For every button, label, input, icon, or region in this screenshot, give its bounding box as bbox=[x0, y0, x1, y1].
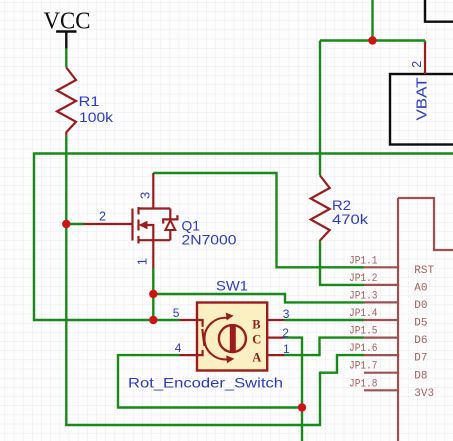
svg-text:C: C bbox=[252, 333, 261, 347]
connector JP1 (module box) bbox=[364, 198, 453, 441]
svg-text:D8: D8 bbox=[414, 370, 427, 382]
svg-text:3: 3 bbox=[283, 307, 290, 321]
svg-text:3V3: 3V3 bbox=[414, 388, 434, 400]
switch SW1 Rot_Encoder_Switch bbox=[128, 278, 285, 391]
svg-text:JP1.1: JP1.1 bbox=[349, 255, 378, 267]
wire SW1 pin3 to JP1.4 bbox=[285, 319, 365, 321]
svg-text:1: 1 bbox=[283, 342, 290, 356]
wire top VBAT net bbox=[320, 0, 425, 176]
svg-text:JP1.5: JP1.5 bbox=[349, 326, 378, 338]
svg-text:2: 2 bbox=[410, 61, 424, 68]
svg-text:JP1.2: JP1.2 bbox=[349, 273, 378, 285]
svg-text:470k: 470k bbox=[332, 211, 369, 227]
wire SW1 pin2 down across to bottom bbox=[285, 338, 303, 441]
wire source net rail (left big loop to SW1 pin 5) bbox=[34, 154, 453, 321]
svg-text:5: 5 bbox=[173, 306, 180, 320]
wire Q1 drain to JP1.1 bbox=[153, 173, 364, 267]
svg-text:SW1: SW1 bbox=[216, 278, 248, 294]
wire VCC to R1 bbox=[65, 49, 67, 68]
wire R2 bottom to JP1.2 bbox=[320, 241, 364, 285]
svg-text:2: 2 bbox=[99, 210, 106, 224]
junction dot at VBAT wire bbox=[368, 36, 376, 44]
resistor R2 bbox=[311, 176, 369, 242]
svg-text:100k: 100k bbox=[79, 109, 114, 125]
svg-text:D6: D6 bbox=[414, 335, 427, 347]
wire source junction to JP1.3 bbox=[153, 294, 364, 302]
svg-text:VBAT: VBAT bbox=[413, 78, 430, 121]
svg-text:JP1.3: JP1.3 bbox=[349, 290, 378, 302]
junction dot at SW1 pin5 bbox=[149, 316, 157, 324]
resistor R1 bbox=[57, 68, 114, 136]
svg-text:2: 2 bbox=[282, 326, 289, 340]
svg-text:B: B bbox=[252, 317, 260, 331]
supply symbol VCC bbox=[44, 8, 91, 48]
svg-text:JP1.8: JP1.8 bbox=[349, 378, 378, 390]
svg-text:Rot_Encoder_Switch: Rot_Encoder_Switch bbox=[128, 375, 283, 391]
svg-text:A0: A0 bbox=[414, 283, 427, 295]
wire SW1 pin1 to JP1.5 bbox=[285, 338, 365, 356]
svg-text:JP1.7: JP1.7 bbox=[349, 361, 378, 373]
transistor Q1 2N7000 bbox=[84, 173, 237, 268]
svg-text:A: A bbox=[252, 351, 261, 365]
junction dot below SW1 bbox=[298, 403, 306, 411]
battery VBAT box bbox=[390, 74, 453, 145]
svg-text:D7: D7 bbox=[414, 353, 427, 365]
svg-text:JP1.6: JP1.6 bbox=[349, 343, 378, 355]
svg-text:RST: RST bbox=[414, 265, 434, 277]
wire R1 bottom to gate junction to bottom rail bbox=[66, 136, 364, 425]
svg-text:JP1.4: JP1.4 bbox=[349, 308, 378, 320]
wire Q1 source down to SW1 pin5 row bbox=[152, 268, 154, 320]
svg-text:R1: R1 bbox=[79, 93, 100, 109]
junction dot at Q1 gate bbox=[62, 220, 70, 228]
junction dot at source/JP1.3 branch bbox=[149, 290, 157, 298]
wire gate junction to Q1 gate bbox=[66, 223, 84, 225]
svg-text:D5: D5 bbox=[414, 318, 427, 330]
svg-text:2N7000: 2N7000 bbox=[182, 232, 237, 248]
wire SW1 pin4 to junction under SW1 bbox=[118, 355, 302, 407]
svg-text:3: 3 bbox=[138, 192, 153, 199]
svg-text:4: 4 bbox=[175, 341, 182, 355]
svg-text:1: 1 bbox=[135, 258, 150, 265]
pin 2 (VBAT) bbox=[410, 43, 425, 75]
battery connector box (top right) bbox=[425, 0, 453, 22]
svg-text:D0: D0 bbox=[414, 300, 427, 312]
